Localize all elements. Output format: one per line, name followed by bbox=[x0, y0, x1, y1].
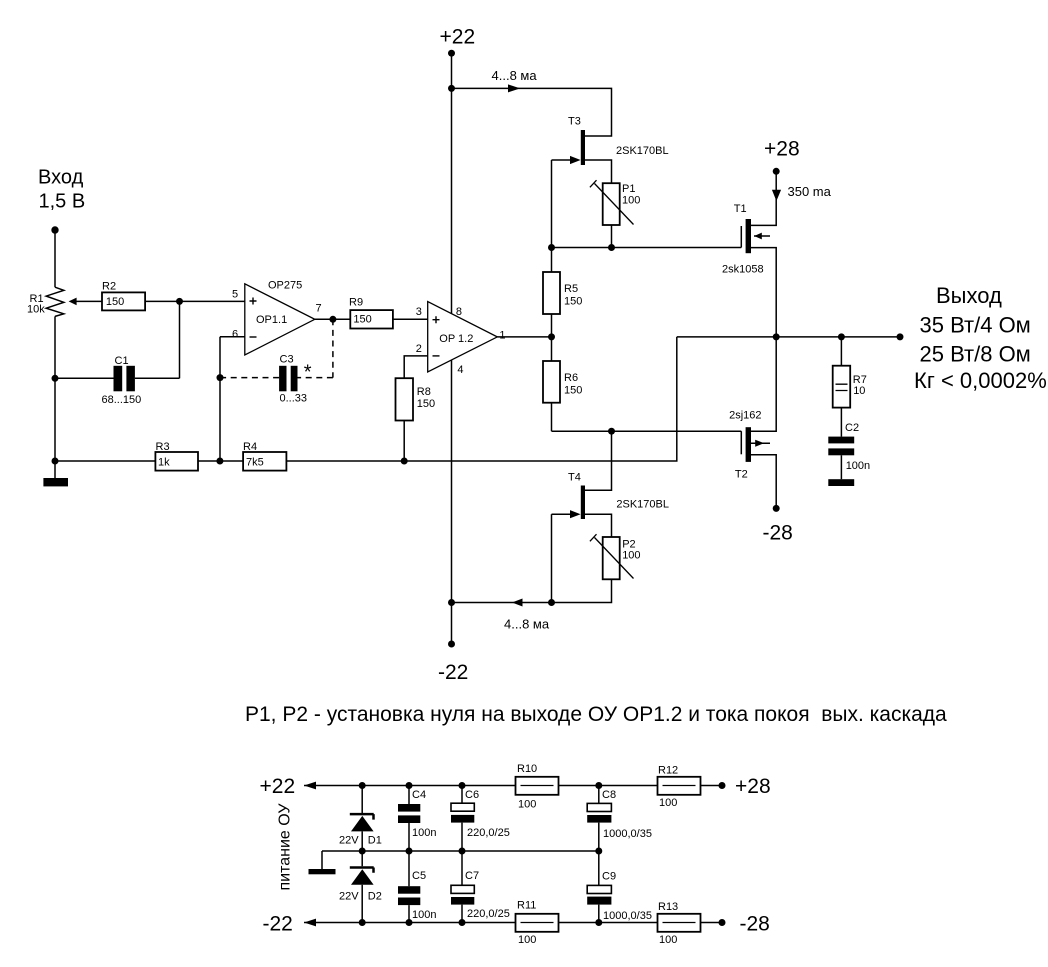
svg-text:C6: C6 bbox=[465, 789, 479, 801]
svg-text:4...8 ма: 4...8 ма bbox=[492, 68, 538, 83]
svg-text:T1: T1 bbox=[734, 203, 747, 215]
svg-text:35 Вт/4 Ом: 35 Вт/4 Ом bbox=[920, 312, 1031, 337]
svg-text:C1: C1 bbox=[115, 355, 129, 367]
svg-text:1000,0/35: 1000,0/35 bbox=[603, 828, 652, 840]
svg-text:-28: -28 bbox=[740, 913, 770, 936]
svg-text:C2: C2 bbox=[845, 422, 859, 434]
svg-text:R9: R9 bbox=[349, 297, 363, 309]
svg-text:R10: R10 bbox=[517, 763, 537, 775]
svg-text:4...8 ма: 4...8 ма bbox=[504, 617, 550, 632]
svg-text:100: 100 bbox=[659, 934, 677, 946]
svg-text:R5: R5 bbox=[564, 283, 578, 295]
svg-text:1,5 В: 1,5 В bbox=[39, 191, 86, 213]
svg-text:150: 150 bbox=[353, 314, 371, 326]
svg-text:2: 2 bbox=[416, 343, 422, 355]
svg-text:1000,0/35: 1000,0/35 bbox=[603, 910, 652, 922]
svg-text:150: 150 bbox=[564, 296, 582, 308]
svg-text:R4: R4 bbox=[243, 441, 257, 453]
svg-text:100n: 100n bbox=[412, 827, 436, 839]
svg-text:100: 100 bbox=[518, 934, 536, 946]
svg-text:22V: 22V bbox=[339, 891, 359, 903]
svg-text:D2: D2 bbox=[368, 891, 382, 903]
svg-text:4: 4 bbox=[457, 364, 463, 376]
svg-text:+22: +22 bbox=[260, 775, 296, 798]
svg-text:220,0/25: 220,0/25 bbox=[467, 908, 510, 920]
svg-text:+28: +28 bbox=[764, 138, 800, 161]
svg-text:R6: R6 bbox=[564, 372, 578, 384]
svg-text:10k: 10k bbox=[27, 304, 45, 316]
svg-text:OP275: OP275 bbox=[268, 280, 302, 292]
svg-text:T3: T3 bbox=[568, 116, 581, 128]
svg-text:7: 7 bbox=[316, 303, 322, 315]
svg-text:C9: C9 bbox=[602, 871, 616, 883]
svg-text:100: 100 bbox=[622, 195, 640, 207]
svg-text:3: 3 bbox=[416, 306, 422, 318]
svg-text:R2: R2 bbox=[102, 281, 116, 293]
svg-text:8: 8 bbox=[456, 306, 462, 318]
svg-text:R12: R12 bbox=[658, 765, 678, 777]
svg-text:+22: +22 bbox=[440, 26, 476, 49]
svg-text:68...150: 68...150 bbox=[102, 394, 142, 406]
svg-text:5: 5 bbox=[232, 289, 238, 301]
svg-text:R3: R3 bbox=[156, 441, 170, 453]
svg-text:питание ОУ: питание ОУ bbox=[277, 803, 294, 891]
svg-text:150: 150 bbox=[106, 296, 124, 308]
svg-text:R8: R8 bbox=[417, 386, 431, 398]
svg-text:6: 6 bbox=[232, 329, 238, 341]
svg-text:-22: -22 bbox=[438, 661, 468, 684]
svg-text:1k: 1k bbox=[158, 457, 170, 469]
svg-text:350 ma: 350 ma bbox=[788, 184, 832, 199]
svg-text:C4: C4 bbox=[412, 789, 426, 801]
svg-text:C5: C5 bbox=[412, 870, 426, 882]
svg-text:100: 100 bbox=[518, 799, 536, 811]
svg-text:-28: -28 bbox=[763, 522, 793, 545]
svg-text:150: 150 bbox=[564, 385, 582, 397]
svg-text:R13: R13 bbox=[658, 901, 678, 913]
svg-text:0...33: 0...33 bbox=[280, 393, 308, 405]
svg-text:100: 100 bbox=[622, 550, 640, 562]
svg-text:-22: -22 bbox=[263, 913, 293, 936]
svg-text:*: * bbox=[304, 361, 312, 383]
svg-text:C8: C8 bbox=[602, 789, 616, 801]
svg-text:OP1.1: OP1.1 bbox=[256, 314, 287, 326]
svg-text:T4: T4 bbox=[568, 472, 581, 484]
svg-text:100: 100 bbox=[659, 797, 677, 809]
svg-text:R11: R11 bbox=[517, 900, 536, 912]
svg-text:1: 1 bbox=[499, 330, 505, 342]
svg-text:P1, P2 - установка нуля на вых: P1, P2 - установка нуля на выходе ОУ ОР1… bbox=[245, 703, 947, 726]
svg-text:25 Вт/8 Ом: 25 Вт/8 Ом bbox=[920, 342, 1031, 367]
svg-text:Кг < 0,0002%: Кг < 0,0002% bbox=[914, 368, 1047, 393]
svg-text:150: 150 bbox=[417, 398, 435, 410]
svg-text:C7: C7 bbox=[465, 870, 479, 882]
svg-text:P1: P1 bbox=[622, 183, 635, 195]
svg-text:22V: 22V bbox=[339, 835, 359, 847]
svg-text:2sk1058: 2sk1058 bbox=[722, 264, 764, 276]
svg-text:100n: 100n bbox=[846, 460, 870, 472]
svg-text:OP 1.2: OP 1.2 bbox=[439, 333, 473, 345]
svg-text:+28: +28 bbox=[735, 775, 771, 798]
svg-text:C3: C3 bbox=[280, 354, 294, 366]
svg-text:D1: D1 bbox=[368, 835, 382, 847]
svg-text:2SK170BL: 2SK170BL bbox=[616, 499, 669, 511]
svg-text:Вход: Вход bbox=[38, 167, 84, 189]
svg-text:10: 10 bbox=[853, 385, 865, 397]
svg-text:7k5: 7k5 bbox=[246, 457, 264, 469]
svg-text:2SK170BL: 2SK170BL bbox=[616, 145, 669, 157]
svg-text:2sj162: 2sj162 bbox=[729, 410, 761, 422]
svg-text:100n: 100n bbox=[412, 909, 436, 921]
svg-text:T2: T2 bbox=[735, 469, 748, 481]
svg-text:220,0/25: 220,0/25 bbox=[467, 827, 510, 839]
svg-text:Выход: Выход bbox=[936, 283, 1002, 308]
